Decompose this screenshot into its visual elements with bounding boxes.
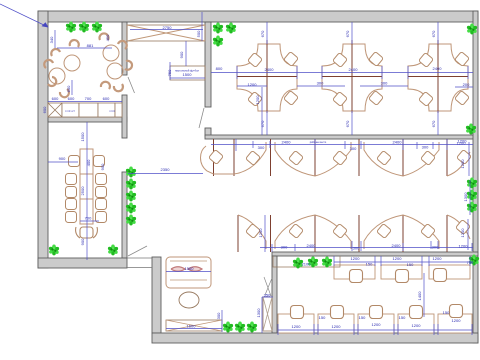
cafe chair <box>118 41 127 49</box>
dim lobby door <box>262 297 273 333</box>
door swing lines lobby-office <box>264 277 272 296</box>
svg-text:2400: 2400 <box>392 243 402 248</box>
dim 500 wardrobe <box>201 12 203 41</box>
dims break room <box>48 30 122 102</box>
row B chairs <box>209 150 224 165</box>
round table 2 <box>49 68 65 84</box>
dim vertical x262 <box>261 87 263 135</box>
svg-text:1600: 1600 <box>187 324 197 329</box>
svg-text:1200: 1200 <box>460 159 465 169</box>
svg-text:300: 300 <box>422 145 429 150</box>
plants lobby <box>223 322 233 333</box>
svg-text:670: 670 <box>431 120 436 127</box>
plant right lower <box>469 255 479 266</box>
plants hall column <box>126 167 136 178</box>
plant top-right corner <box>467 24 477 35</box>
cafe chair <box>60 89 69 97</box>
plants right column <box>467 178 477 189</box>
svg-text:1200: 1200 <box>460 228 465 238</box>
svg-text:1200: 1200 <box>433 256 443 261</box>
dim sofa <box>166 271 211 273</box>
round table 4 <box>107 63 123 79</box>
lobby cabinet row <box>166 320 222 331</box>
cafe chair <box>51 49 60 56</box>
svg-text:1500: 1500 <box>185 266 195 271</box>
round table 1 <box>64 55 80 71</box>
row D tables <box>334 265 470 279</box>
svg-text:670: 670 <box>260 120 265 127</box>
svg-text:настольный футбол: настольный футбол <box>175 69 200 73</box>
dim 900 storage <box>185 41 187 66</box>
plants conference <box>49 245 59 256</box>
planter box <box>273 256 340 267</box>
coffee table oval <box>179 292 199 308</box>
row C chairs <box>246 224 261 239</box>
row E chairs <box>291 306 304 319</box>
dim 2750 wardrobe <box>130 29 203 31</box>
table football <box>170 66 205 80</box>
cafe chair <box>48 77 56 86</box>
plants break room <box>66 22 76 33</box>
dim verticals right column <box>468 142 470 250</box>
svg-text:рабочее место: рабочее место <box>310 141 327 144</box>
office door leaf with X <box>263 297 272 331</box>
svg-text:2350: 2350 <box>161 167 171 172</box>
dim row C <box>260 215 473 252</box>
svg-text:2400: 2400 <box>393 140 403 145</box>
svg-text:1200: 1200 <box>457 141 467 146</box>
cluster 3 outline <box>408 44 468 111</box>
svg-text:2400: 2400 <box>433 66 443 71</box>
plants planter <box>293 258 303 269</box>
cluster 1 chairs <box>248 53 263 68</box>
dim 700 conference <box>80 220 99 222</box>
dim line top room main <box>211 66 473 79</box>
svg-text:150: 150 <box>399 315 406 320</box>
svg-text:600: 600 <box>103 96 110 101</box>
leader arrowhead <box>42 22 49 27</box>
svg-text:1200: 1200 <box>332 324 342 329</box>
svg-text:150: 150 <box>366 262 373 267</box>
svg-text:600: 600 <box>42 106 47 113</box>
svg-text:2400: 2400 <box>349 67 359 72</box>
svg-text:1200: 1200 <box>258 228 263 238</box>
plant right mid <box>466 124 476 135</box>
svg-text:340: 340 <box>49 36 54 43</box>
svg-text:300: 300 <box>317 81 324 86</box>
leader arrow top-left <box>0 4 48 27</box>
cluster 2 outline <box>322 44 382 111</box>
svg-text:900: 900 <box>59 156 66 161</box>
cafe chair <box>101 82 110 89</box>
svg-text:1200: 1200 <box>412 323 422 328</box>
svg-text:881: 881 <box>87 43 94 48</box>
cluster 3 chairs <box>419 53 434 68</box>
cafe chair <box>70 40 79 47</box>
row C desk fronts <box>238 215 470 249</box>
cafe chair <box>99 33 108 40</box>
svg-text:670: 670 <box>431 30 436 37</box>
svg-text:1200: 1200 <box>372 322 382 327</box>
svg-text:750: 750 <box>467 260 474 265</box>
conference chairs top <box>69 156 80 167</box>
dim 2350 hall <box>128 173 203 175</box>
svg-text:1200: 1200 <box>248 82 258 87</box>
svg-text:2400: 2400 <box>265 67 275 72</box>
svg-text:300: 300 <box>258 145 265 150</box>
cafe chair <box>125 61 132 70</box>
svg-text:2400: 2400 <box>307 243 317 248</box>
wall divider break/conference <box>48 117 127 122</box>
dim row D <box>334 256 473 266</box>
svg-text:700: 700 <box>85 96 92 101</box>
svg-text:700: 700 <box>85 216 92 221</box>
svg-text:800: 800 <box>216 66 223 71</box>
svg-text:150: 150 <box>319 315 326 320</box>
svg-text:500: 500 <box>196 30 201 37</box>
svg-text:150: 150 <box>407 262 414 267</box>
row B desk fronts <box>201 142 471 176</box>
svg-text:300: 300 <box>432 245 439 250</box>
wall right <box>473 11 478 343</box>
dim segs top room second <box>237 86 473 87</box>
cluster 1 outline <box>237 44 297 111</box>
svg-text:750: 750 <box>167 69 172 76</box>
svg-text:шкаф для: шкаф для <box>65 110 76 113</box>
svg-text:670: 670 <box>260 30 265 37</box>
dims conference vertical <box>86 122 88 260</box>
svg-text:300: 300 <box>381 81 388 86</box>
svg-text:900: 900 <box>80 238 85 245</box>
svg-text:2500: 2500 <box>80 186 85 196</box>
svg-text:1200: 1200 <box>351 256 361 261</box>
svg-text:150: 150 <box>443 310 450 315</box>
svg-text:300: 300 <box>350 146 357 151</box>
wall lobby left <box>152 257 161 333</box>
dim lobby cabinets <box>166 310 222 332</box>
cafe chair <box>44 60 53 68</box>
svg-text:300: 300 <box>353 246 360 251</box>
svg-text:600: 600 <box>66 85 71 92</box>
svg-text:1200: 1200 <box>393 256 403 261</box>
svg-text:1200: 1200 <box>452 318 462 323</box>
door leaf storage <box>199 108 204 128</box>
svg-text:450: 450 <box>105 34 110 41</box>
svg-text:2400: 2400 <box>282 140 292 145</box>
svg-text:1200: 1200 <box>459 244 469 249</box>
svg-text:1400: 1400 <box>417 291 422 301</box>
sofa <box>166 257 211 288</box>
svg-text:900: 900 <box>100 163 105 170</box>
round table 3 <box>103 45 119 61</box>
svg-text:150: 150 <box>359 315 366 320</box>
wall interior left-block right, mid <box>122 95 127 138</box>
svg-text:2750: 2750 <box>163 25 173 30</box>
wall storage stub <box>205 128 211 136</box>
dim 1500 football <box>170 62 205 80</box>
svg-text:350: 350 <box>264 293 271 298</box>
row B partitions <box>214 139 448 176</box>
cluster 3 partitions <box>408 40 468 113</box>
conference table <box>80 149 93 224</box>
cabinet row break room <box>48 103 122 117</box>
door leaf conference-lobby <box>128 246 147 256</box>
svg-text:600: 600 <box>52 96 59 101</box>
door leaf break room <box>128 77 135 93</box>
wall interior left-block right, upper <box>122 22 127 75</box>
svg-text:670: 670 <box>345 120 350 127</box>
wall lower-office top <box>272 252 478 256</box>
wall left <box>38 11 48 268</box>
sofa cushions <box>171 267 202 272</box>
svg-text:шкаф: шкаф <box>109 110 115 113</box>
conference chairs right <box>96 174 107 185</box>
dim 900 conference <box>48 161 78 163</box>
svg-text:200: 200 <box>463 82 470 87</box>
wall interior left-block right, lower <box>122 172 127 258</box>
wall conference bottom <box>38 258 127 268</box>
wall lobby/office divider <box>272 256 277 333</box>
svg-text:1300: 1300 <box>463 192 468 202</box>
cluster 2 partitions <box>322 40 382 113</box>
row E desks <box>278 314 472 333</box>
svg-text:300: 300 <box>216 312 221 319</box>
svg-text:600: 600 <box>68 96 75 101</box>
cluster 2 chairs <box>333 53 348 68</box>
opening conference-lobby <box>127 258 152 268</box>
svg-text:1500: 1500 <box>80 132 85 142</box>
cluster 1 partitions <box>237 40 297 113</box>
svg-text:670: 670 <box>345 30 350 37</box>
svg-text:1500: 1500 <box>183 72 193 77</box>
plants open office top-left <box>213 23 223 34</box>
row C partitions <box>238 215 447 252</box>
svg-text:400: 400 <box>86 159 91 166</box>
svg-text:1300: 1300 <box>256 308 261 318</box>
conference chairs left <box>66 174 77 185</box>
row D chairs <box>350 270 363 283</box>
svg-text:1200: 1200 <box>292 324 302 329</box>
dim 670 verticals top <box>267 22 438 135</box>
wall mid horizontal <box>205 135 478 139</box>
cafe chair <box>114 84 123 91</box>
head chair <box>76 227 98 238</box>
wall bottom <box>152 333 478 343</box>
svg-text:300: 300 <box>281 245 288 250</box>
svg-text:900: 900 <box>179 51 184 58</box>
svg-text:1200: 1200 <box>255 95 260 105</box>
dim 1400 vertical <box>423 273 425 317</box>
wall top <box>38 11 478 22</box>
wardrobe with X <box>127 25 205 41</box>
svg-text:2100: 2100 <box>302 262 312 267</box>
dim row B <box>211 139 473 151</box>
dim row E <box>278 324 472 335</box>
wall storage right <box>205 22 211 107</box>
